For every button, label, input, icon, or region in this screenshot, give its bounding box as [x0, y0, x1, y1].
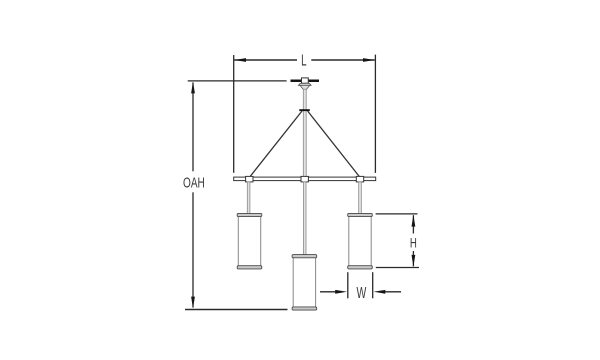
W label	[356, 284, 366, 302]
left cylinder body	[238, 216, 260, 268]
svg-text:W: W	[356, 284, 366, 302]
right cylinder top rim	[348, 213, 373, 216]
connector box center	[301, 176, 308, 182]
W dimension left tick	[347, 272, 349, 298]
center cylinder top rim	[292, 255, 317, 258]
right arm	[308, 111, 360, 177]
right cylinder body	[349, 216, 371, 268]
connector box left	[246, 176, 253, 182]
canopy neck	[300, 85, 310, 89]
H dimension line lower segment	[412, 251, 414, 266]
cross arm bar	[234, 177, 376, 181]
H dimension top extension line	[376, 213, 418, 215]
L dimension line right segment	[311, 59, 375, 61]
W dimension right tick	[372, 272, 374, 298]
svg-text:OAH: OAH	[183, 175, 205, 191]
center drop rod	[303, 182, 306, 255]
L dimension left extension line	[233, 55, 235, 173]
left cylinder top rim	[237, 213, 262, 216]
center cylinder body	[293, 257, 315, 309]
center cylinder bottom rim	[292, 307, 317, 310]
H down arrowhead	[412, 255, 416, 267]
W left arrowhead	[335, 290, 347, 294]
canopy dome	[298, 83, 311, 85]
connector box right	[356, 176, 363, 182]
W left arrow line	[320, 291, 337, 293]
svg-text:L: L	[301, 51, 306, 69]
OAH dimension line lower segment	[192, 192, 194, 307]
ceiling mount bar thick	[291, 80, 320, 83]
L label	[301, 51, 306, 69]
H label	[410, 235, 417, 251]
H dimension bottom extension line	[376, 267, 419, 269]
OAH dimension line upper segment	[192, 83, 194, 172]
H up arrowhead	[412, 215, 416, 227]
W right arrowhead	[374, 290, 386, 294]
right cylinder bottom rim	[348, 266, 373, 269]
apex collar	[299, 109, 310, 111]
right drop rod	[359, 182, 362, 214]
left drop rod	[247, 182, 250, 214]
L right arrowhead	[363, 58, 375, 62]
center stem rod	[303, 89, 306, 177]
H dimension line upper segment	[412, 215, 414, 233]
OAH down arrowhead	[191, 297, 195, 309]
L dimension right extension line	[374, 55, 376, 173]
left cylinder bottom rim	[237, 266, 262, 269]
L left arrowhead	[234, 58, 246, 62]
canopy box	[302, 78, 309, 83]
OAH label	[183, 175, 205, 191]
L dimension line left segment	[234, 59, 297, 61]
OAH bottom extension line	[185, 309, 288, 311]
left arm	[250, 111, 302, 177]
svg-text:H: H	[410, 235, 417, 251]
OAH up arrowhead	[191, 82, 195, 94]
ceiling line thin (OAH top extension)	[188, 80, 287, 82]
W right arrow line	[384, 291, 401, 293]
